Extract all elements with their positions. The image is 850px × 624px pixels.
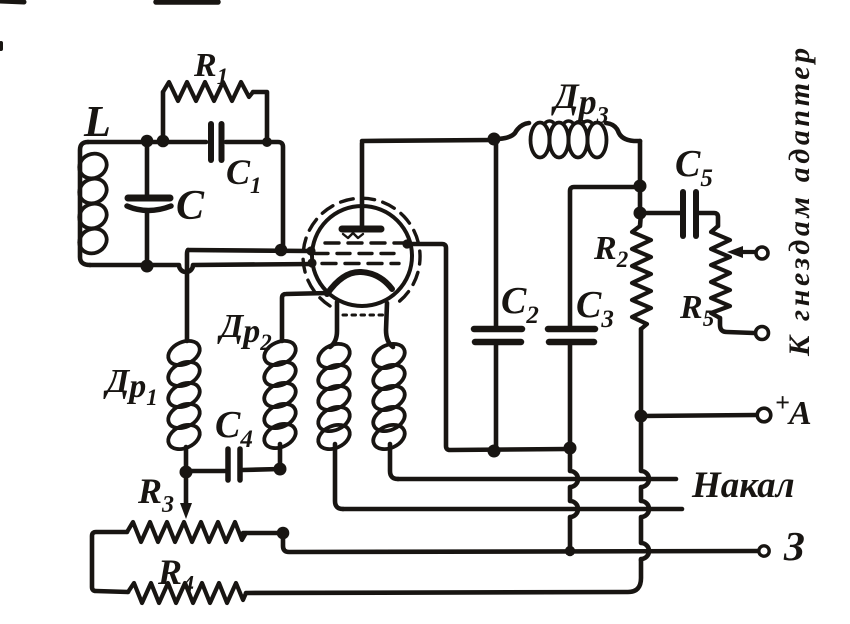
scan artifact left edge: [0, 43, 3, 49]
svg-text:Др1: Др1: [103, 363, 158, 410]
node C2 bottom: [488, 445, 501, 458]
choke Dr3: [494, 121, 640, 158]
svg-text:R4: R4: [157, 552, 194, 598]
svg-text:L: L: [83, 97, 111, 146]
node Dr1 bottom: [180, 466, 193, 479]
node Dr2 bottom: [274, 463, 287, 476]
resistor R1: [163, 82, 267, 140]
svg-text:Др2: Др2: [217, 308, 272, 355]
terminal +A: [757, 408, 771, 422]
node C3 screen junction: [564, 442, 577, 455]
node C5 branch: [634, 207, 647, 220]
capacitor C (tank): [127, 143, 171, 264]
wire C1 right to corner: [226, 142, 283, 249]
wire Dr1 top lead: [187, 250, 188, 341]
wire C3 line down with hops: [570, 450, 578, 551]
tube anode: [342, 143, 381, 238]
wire Z line: [283, 533, 757, 552]
wire tank top: [88, 140, 206, 145]
terminal Z: [759, 546, 769, 556]
scan artifact top bar: [156, 0, 218, 5]
svg-text:R2: R2: [593, 230, 628, 272]
wire R4 to right riser: [246, 560, 641, 593]
coil L: [75, 142, 110, 265]
svg-text:+: +: [775, 388, 790, 417]
capacitor C4: [186, 449, 280, 480]
svg-text:C5: C5: [675, 143, 713, 192]
wire grid (upper): [188, 250, 309, 251]
tube grids (dashed): [315, 243, 409, 264]
resistor R2: [632, 213, 651, 416]
wire tank bottom with hop: [90, 264, 313, 272]
capacitor C5: [640, 192, 718, 236]
capacitor C2: [474, 141, 522, 450]
node +A junction: [635, 410, 648, 423]
node tank-C top: [141, 135, 154, 148]
node R1 right: [262, 137, 272, 147]
wire filament line 1: [398, 477, 676, 482]
tube U1 envelope: [303, 198, 420, 306]
svg-text:C4: C4: [215, 404, 253, 453]
resistor R4: [128, 583, 246, 603]
choke filament right: [369, 339, 408, 479]
node C3 branch: [634, 180, 647, 193]
wire screen to C2 junction: [409, 244, 568, 450]
capacitor C1: [211, 124, 222, 160]
node R3 right: [277, 527, 290, 540]
node anode/C2/Dr3: [488, 133, 501, 146]
capacitor C3: [548, 187, 638, 450]
node grid wire: [275, 244, 288, 257]
pin screen: [402, 239, 411, 248]
terminal R5 bottom: [756, 327, 769, 340]
choke Dr1: [164, 336, 203, 471]
R5 wiper arrow: [727, 246, 755, 258]
wire filament line 2: [343, 507, 682, 512]
wire right riser lower with hops: [641, 416, 649, 560]
terminal wiper: [756, 247, 768, 259]
svg-text:З: З: [783, 523, 805, 569]
svg-text:Накал: Накал: [691, 465, 795, 506]
wire Dr2 top lead: [282, 293, 328, 341]
choke filament left: [314, 339, 353, 509]
wire anode top: [362, 140, 493, 141]
resistor R3: [92, 522, 283, 592]
potentiometer R5: [711, 226, 754, 333]
svg-text:C2: C2: [501, 280, 539, 329]
svg-text:А: А: [787, 395, 812, 432]
node tank bottom: [141, 260, 154, 273]
choke Dr2: [260, 336, 299, 468]
tube neck: [330, 302, 393, 347]
svg-text:R3: R3: [137, 471, 174, 518]
tube filament: [327, 272, 392, 294]
svg-text:R1: R1: [193, 47, 228, 89]
node R1 left: [157, 135, 170, 148]
node Z junction: [565, 546, 575, 556]
svg-text:C: C: [176, 183, 205, 229]
scan artifact top-left: [0, 1, 24, 2]
svg-text:R5: R5: [679, 289, 714, 331]
pin grid1: [306, 246, 315, 255]
wire right riser top: [638, 141, 643, 213]
svg-text:C1: C1: [226, 152, 262, 198]
potentiometer R3 wiper arrow: [180, 472, 192, 519]
pin grid2: [307, 258, 316, 267]
wire +A: [641, 415, 756, 416]
svg-text:C3: C3: [576, 284, 614, 333]
svg-text:К гнездам адаптер: К гнездам адаптер: [783, 44, 816, 357]
